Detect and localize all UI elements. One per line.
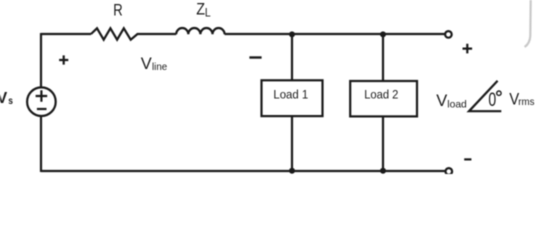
wire bottom bbox=[41, 170, 446, 172]
wire load2 bottom lead bbox=[382, 116, 384, 171]
svg-text:line: line bbox=[152, 61, 167, 73]
wire left vertical lower bbox=[40, 116, 42, 172]
minus label mid (line voltage -) bbox=[249, 56, 261, 58]
wire load1 top lead bbox=[291, 34, 293, 80]
svg-text:V: V bbox=[436, 91, 448, 110]
wire between R and ZL bbox=[140, 33, 176, 35]
load 1 box bbox=[262, 80, 323, 116]
node bottom left junction bbox=[289, 168, 295, 174]
inductor ZL bbox=[176, 28, 224, 34]
wire load1 bottom lead bbox=[291, 116, 293, 171]
svg-text:s: s bbox=[8, 95, 13, 107]
svg-text:Z: Z bbox=[196, 0, 205, 19]
terminal bottom right bbox=[446, 168, 453, 175]
svg-text:L: L bbox=[205, 5, 211, 19]
svg-text:V: V bbox=[141, 54, 153, 73]
plus sign inside source bbox=[36, 90, 48, 102]
voltage source Vs circle bbox=[27, 87, 56, 116]
node top right junction bbox=[380, 31, 386, 37]
wire load2 top lead bbox=[382, 34, 384, 81]
svg-text:load: load bbox=[447, 98, 467, 110]
wire left vertical upper bbox=[40, 33, 42, 87]
node bottom right junction bbox=[380, 168, 386, 174]
cursor trace top right corner bbox=[525, 0, 531, 47]
svg-text:rms: rms bbox=[518, 96, 534, 108]
svg-text:R: R bbox=[113, 0, 122, 19]
wire top segment right bbox=[225, 33, 446, 35]
wire top segment left bbox=[41, 33, 91, 35]
node top left junction bbox=[289, 31, 295, 37]
load 2 box bbox=[350, 81, 417, 116]
terminal top right bbox=[445, 31, 452, 38]
resistor R bbox=[91, 28, 140, 39]
svg-text:Load 2: Load 2 bbox=[364, 87, 398, 101]
minus label right terminal bbox=[464, 158, 471, 160]
angle symbol bbox=[469, 81, 501, 111]
minus sign inside source bbox=[37, 108, 47, 110]
plus label left (line voltage +) bbox=[59, 55, 68, 64]
svg-text:0: 0 bbox=[488, 89, 496, 111]
degree symbol of 0 bbox=[497, 91, 501, 95]
plus label right terminal bbox=[463, 44, 473, 54]
svg-text:V: V bbox=[0, 90, 8, 107]
svg-text:Load 1: Load 1 bbox=[273, 87, 308, 101]
